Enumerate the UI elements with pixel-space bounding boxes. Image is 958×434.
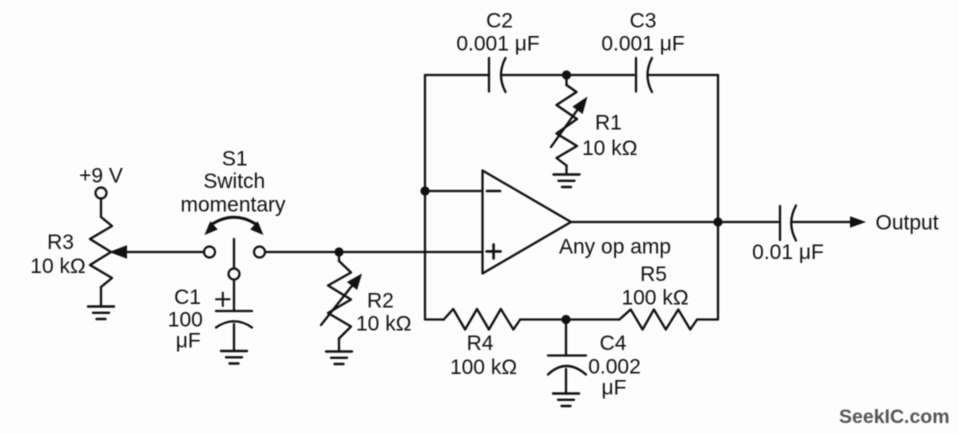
svg-text:0.002: 0.002 — [588, 356, 641, 379]
svg-text:C4: C4 — [600, 332, 627, 355]
svg-text:R5: R5 — [640, 263, 667, 286]
svg-text:C1: C1 — [174, 286, 201, 309]
svg-text:S1: S1 — [222, 148, 248, 171]
svg-text:0.001 μF: 0.001 μF — [601, 33, 684, 56]
svg-text:C2: C2 — [486, 9, 513, 32]
svg-text:10 kΩ: 10 kΩ — [356, 313, 411, 336]
svg-text:Output: Output — [876, 212, 939, 235]
svg-text:SeekIC.com: SeekIC.com — [839, 406, 950, 428]
svg-text:0.001 μF: 0.001 μF — [456, 33, 539, 56]
svg-text:10 kΩ: 10 kΩ — [30, 255, 85, 278]
svg-text:Any op amp: Any op amp — [559, 236, 671, 259]
svg-text:C3: C3 — [630, 9, 657, 32]
svg-text:100: 100 — [168, 309, 203, 332]
svg-text:R3: R3 — [47, 231, 74, 254]
svg-text:R4: R4 — [467, 332, 494, 355]
svg-text:μF: μF — [176, 330, 201, 353]
svg-text:Switch: Switch — [203, 170, 265, 193]
svg-text:100 kΩ: 100 kΩ — [450, 356, 517, 379]
svg-text:10 kΩ: 10 kΩ — [582, 137, 637, 160]
svg-text:0.01 μF: 0.01 μF — [752, 241, 824, 264]
svg-text:μF: μF — [602, 377, 627, 400]
svg-text:R1: R1 — [595, 112, 622, 135]
svg-text:momentary: momentary — [180, 194, 286, 217]
svg-text:+9 V: +9 V — [79, 165, 123, 188]
svg-text:R2: R2 — [367, 290, 394, 313]
svg-text:100 kΩ: 100 kΩ — [621, 287, 688, 310]
